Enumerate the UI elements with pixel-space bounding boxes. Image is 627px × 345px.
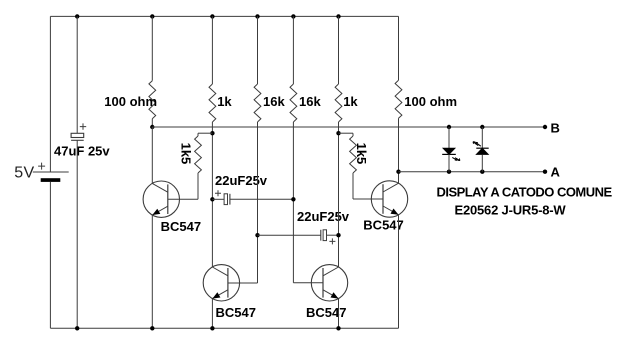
node C2 left junction [210,197,214,201]
wire R8 upper stub [352,133,354,136]
node bottom rail junction Q3 [336,326,340,330]
wire R2 bottom and Q2 collector [211,122,213,267]
wire Q1 base [168,198,198,200]
svg-text:1k5: 1k5 [178,143,193,165]
capacitor C1 plus sign [80,123,86,129]
battery B1 5V [33,171,69,173]
svg-text:47uF 25v: 47uF 25v [54,144,110,159]
wire R7 upper stub [197,133,199,136]
wire R4 top [292,16,294,84]
svg-text:16k: 16k [299,94,321,109]
svg-text:BC547: BC547 [306,305,346,320]
node bottom rail junction C1 [75,326,79,330]
svg-text:100 ohm: 100 ohm [404,94,457,109]
wire R6 bottom [398,118,400,183]
wire Q2 emitter [211,299,213,329]
wire bottom ground rail [50,327,398,329]
LED2 emission arrows [473,142,481,147]
wire top supply rail [50,15,398,17]
wire node A rail [399,171,546,173]
wire R1 top [151,16,153,80]
node top rail junction R2 [210,14,214,18]
resistor R5 1k [335,84,342,122]
transistor Q4 BC547 [371,181,407,217]
resistor R4 16k [290,84,297,122]
node top rail junction C1 [75,14,79,18]
node B terminal [543,125,547,129]
wire R8 tap horizontal [339,132,354,134]
svg-text:22uF25v: 22uF25v [215,173,268,188]
wire R5 bottom and Q3 collector [338,122,340,267]
wire Q4 emitter [398,215,400,328]
node top rail junction R1 [150,14,154,18]
node R2 tap to R7 [210,131,214,135]
wire C1 top [76,16,78,133]
svg-text:A: A [551,165,561,180]
wire left supply rail upper [49,16,51,172]
wire Q3 base link [293,282,323,284]
diode LED2 [481,127,483,148]
svg-text:E20562 J-UR5-8-W: E20562 J-UR5-8-W [455,202,567,217]
node LED1 cathode junction A [447,170,451,174]
wire R1 bottom to node B [151,119,153,127]
resistor R7 1k5 [195,136,202,173]
svg-text:BC547: BC547 [216,305,256,320]
svg-text:1k: 1k [217,94,232,109]
svg-text:1k5: 1k5 [354,143,369,165]
node A terminal [543,170,547,174]
wire R8 bottom [352,173,354,199]
node bottom rail junction Q1 [150,326,154,330]
svg-text:16k: 16k [263,94,285,109]
resistor R2 1k [209,84,216,122]
capacitor C2 plus sign [215,190,221,196]
node C2 right junction [291,197,295,201]
node LED1 anode junction B [447,125,451,129]
wire R7 tap horizontal [198,132,212,134]
wire C1 bottom [76,140,78,328]
svg-text:B: B [551,120,560,135]
diode LED1 [448,127,450,148]
wire node B rail [152,126,545,128]
battery plus sign [38,163,45,170]
node A rail left junction [396,170,400,174]
resistor R3 16k [254,84,261,122]
node LED2 anode junction A [480,170,484,174]
svg-text:100 ohm: 100 ohm [104,94,157,109]
svg-text:22uF25v: 22uF25v [297,209,350,224]
transistor Q1 BC547 [143,181,179,217]
wire Q3 emitter [338,299,340,329]
wire R3 bottom chain [257,122,259,283]
wire R3 top [257,16,259,84]
capacitor C1 47uF 25v [71,133,84,137]
wire Q4 base [353,198,383,200]
wire R4 bottom chain [292,122,294,283]
svg-text:5V: 5V [14,165,34,182]
node C3 left junction [255,233,259,237]
transistor Q3 BC547 [311,265,347,301]
resistor R1 100 ohm [149,81,156,119]
svg-text:BC547: BC547 [363,217,403,232]
wire R6 top [398,16,400,80]
wire Q1 emitter [151,215,153,328]
svg-text:BC547: BC547 [161,219,201,234]
node top rail junction R3 [255,14,259,18]
transistor Q2 BC547 [203,265,239,301]
capacitor C3 22uF25v [258,234,321,236]
node top rail junction R5 [336,14,340,18]
node top rail junction R4 [291,14,295,18]
wire Q1 collector [151,127,153,183]
wire left supply rail lower [49,182,51,328]
svg-text:DISPLAY A CATODO COMUNE: DISPLAY A CATODO COMUNE [437,184,613,199]
svg-text:1k: 1k [343,94,358,109]
LED1 emission arrows [452,157,460,160]
wire R2 top [211,16,213,84]
node bottom rail junction Q2 [210,326,214,330]
wire Q2 base link [228,282,258,284]
node R5 tap to R8 [336,131,340,135]
wire R5 top [338,16,340,84]
node C3 right junction [336,233,340,237]
capacitor C3 plus sign [329,238,335,244]
capacitor C2 22uF25v [212,198,224,200]
resistor R8 1k5 [350,136,357,173]
resistor R6 100 ohm [395,80,402,118]
node LED2 cathode junction B [480,125,484,129]
node B rail left junction [150,125,154,129]
wire R7 bottom [197,173,199,199]
